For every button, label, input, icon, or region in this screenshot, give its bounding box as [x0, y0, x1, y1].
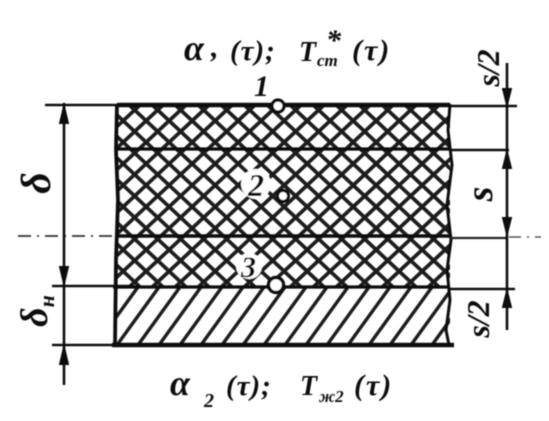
- svg-text:s/2: s/2: [470, 49, 506, 87]
- svg-text:*: *: [326, 24, 342, 57]
- svg-text:(τ): (τ): [352, 34, 391, 67]
- svg-text:δ: δ: [14, 172, 60, 194]
- svg-text:(τ);: (τ);: [230, 35, 276, 67]
- svg-text:T: T: [300, 371, 319, 402]
- svg-text:ж2: ж2: [318, 387, 344, 406]
- svg-text:(τ);: (τ);: [226, 370, 272, 402]
- svg-text:2: 2: [247, 167, 264, 203]
- svg-text:3: 3: [240, 251, 256, 284]
- svg-text:1: 1: [254, 70, 269, 103]
- svg-text:,: ,: [210, 31, 219, 64]
- svg-text:α: α: [170, 363, 191, 403]
- svg-text:T: T: [299, 37, 318, 68]
- svg-text:2: 2: [203, 390, 214, 412]
- svg-text:(τ): (τ): [354, 369, 393, 402]
- svg-text:s/2: s/2: [460, 300, 496, 338]
- svg-text:α: α: [184, 28, 205, 68]
- svg-text:s: s: [459, 187, 501, 203]
